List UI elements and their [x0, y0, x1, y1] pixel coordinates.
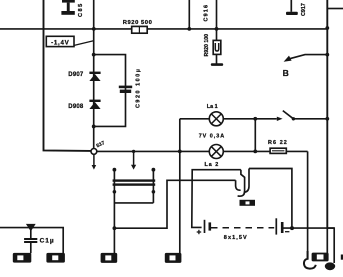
- capacitor C1u: [24, 237, 55, 244]
- node pin left mid: [113, 190, 117, 194]
- terminal S17: [91, 140, 106, 154]
- node R920-100 junction: [215, 27, 219, 31]
- node bus/vertical junction: [178, 150, 182, 154]
- connector bar bottom: [113, 183, 156, 185]
- capacitor C917 top-right: [286, 0, 307, 16]
- wire link between lamp rows: [254, 119, 256, 152]
- resistor R6 22: [268, 140, 288, 153]
- wire curl below terminal 5: [304, 251, 316, 269]
- label -1.4V box: [46, 36, 74, 46]
- node bus top junction: [325, 26, 329, 30]
- wire battery dashes: [211, 227, 274, 229]
- wire top bus: [0, 28, 327, 30]
- diode D908: [68, 100, 100, 110]
- svg-text:D907: D907: [68, 72, 84, 78]
- wire C916 stub left: [188, 0, 190, 29]
- lamp La1: [207, 104, 224, 126]
- wire diode branch vertical: [93, 0, 95, 149]
- svg-text:D908: D908: [68, 104, 84, 110]
- battery right cell: [276, 218, 283, 234]
- node link bottom: [253, 150, 257, 154]
- jack contact 3: [244, 169, 249, 193]
- svg-text:C917: C917: [301, 3, 307, 16]
- wire bottom-left bus: [0, 228, 63, 254]
- jack contact 2: [238, 170, 245, 197]
- svg-text:La 1: La 1: [207, 104, 218, 110]
- wire lamp1 row: [180, 118, 277, 120]
- wire S17 stub down: [93, 154, 95, 166]
- switch blade: [283, 111, 294, 119]
- node pin right mid: [152, 190, 156, 194]
- wire lamp1 left vertical: [179, 119, 181, 253]
- svg-text:7V 0,3A: 7V 0,3A: [199, 134, 225, 140]
- node C916 stub junction: [187, 27, 191, 31]
- node battery box junction: [290, 226, 294, 230]
- wire resistor to ground: [216, 54, 218, 63]
- capacitor C920 100u: [119, 68, 142, 108]
- wire battery box top right: [249, 169, 292, 229]
- node S17 stub tip: [92, 165, 97, 170]
- connector bar top: [113, 179, 156, 181]
- svg-text:8x1,5V: 8x1,5V: [224, 235, 248, 241]
- node y228 junction: [113, 226, 117, 230]
- wire y180 link: [114, 180, 235, 228]
- jack terminal box: [240, 200, 256, 206]
- wire lamp bus: [97, 150, 308, 152]
- battery plus sign: [197, 230, 202, 234]
- node pin right top: [152, 168, 156, 172]
- svg-text:C920 100µ: C920 100µ: [136, 68, 142, 108]
- node link top: [253, 117, 257, 121]
- connector pin right: [152, 169, 154, 203]
- jack contact 1: [236, 180, 241, 190]
- node bus/diode junction: [92, 27, 96, 31]
- wire stub to right edge: [327, 8, 343, 10]
- wire C920 loop: [94, 55, 126, 127]
- node middle stub tip: [131, 165, 136, 170]
- wire capacitor to terminal: [30, 243, 32, 253]
- battery left cell: [205, 220, 212, 233]
- arrow B branch: [283, 53, 330, 78]
- wire switch to bus: [293, 118, 327, 120]
- wire bus into terminal 5: [326, 228, 328, 253]
- wire battery output to bus: [284, 227, 335, 229]
- node C920 bottom junction: [92, 125, 96, 129]
- connector pin left: [113, 169, 115, 253]
- arrow probe on wire: [26, 224, 36, 232]
- wire right main bus: [326, 0, 328, 229]
- node switch contact: [292, 117, 295, 120]
- resistor R920 500: [123, 20, 153, 33]
- wire R920-100 branch: [216, 0, 218, 41]
- blob terminal bottom-right: [325, 262, 335, 270]
- node pin left top: [113, 168, 117, 172]
- node C920 top junction: [92, 53, 96, 57]
- wire arrow to capacitor: [30, 230, 32, 238]
- svg-text:S17: S17: [95, 140, 106, 149]
- svg-text:R920 500: R920 500: [123, 20, 153, 26]
- terminal box 2: [46, 253, 65, 263]
- wire R6 down to bottom terminal: [307, 151, 309, 258]
- svg-text:C1µ: C1µ: [40, 237, 55, 244]
- svg-text:-1,4V: -1,4V: [51, 40, 69, 47]
- diode D907: [68, 72, 100, 81]
- resistor R920 100 vertical: [204, 34, 221, 57]
- svg-text:C85: C85: [78, 2, 84, 17]
- switch open contact arrow: [277, 117, 283, 121]
- tick right edge: [341, 255, 343, 260]
- terminal box 3: [101, 253, 118, 263]
- terminal box 1: [13, 253, 32, 263]
- wire pin bottom link: [114, 202, 153, 204]
- capacitor C85 top-left: [61, 0, 83, 17]
- terminal box 4: [165, 253, 182, 263]
- node middle stub bus junction: [132, 150, 135, 153]
- lamp La2: [205, 145, 224, 168]
- node bus row1 junction: [325, 117, 329, 121]
- wire leader from -1.4V box to node: [74, 41, 93, 46]
- ground: [211, 63, 223, 66]
- wire bus jog down: [327, 228, 334, 263]
- battery minus sign: [285, 231, 289, 233]
- svg-text:R6 22: R6 22: [268, 140, 288, 146]
- terminal box 5 bottom-right: [312, 253, 329, 262]
- wire middle stub from bus: [133, 151, 135, 165]
- svg-text:R920 100: R920 100: [204, 34, 210, 57]
- svg-text:B: B: [283, 68, 289, 78]
- wire left vertical: [44, 0, 91, 151]
- svg-text:La 2: La 2: [205, 162, 220, 168]
- svg-text:C916: C916: [204, 4, 210, 22]
- wire battery box top left: [192, 170, 241, 228]
